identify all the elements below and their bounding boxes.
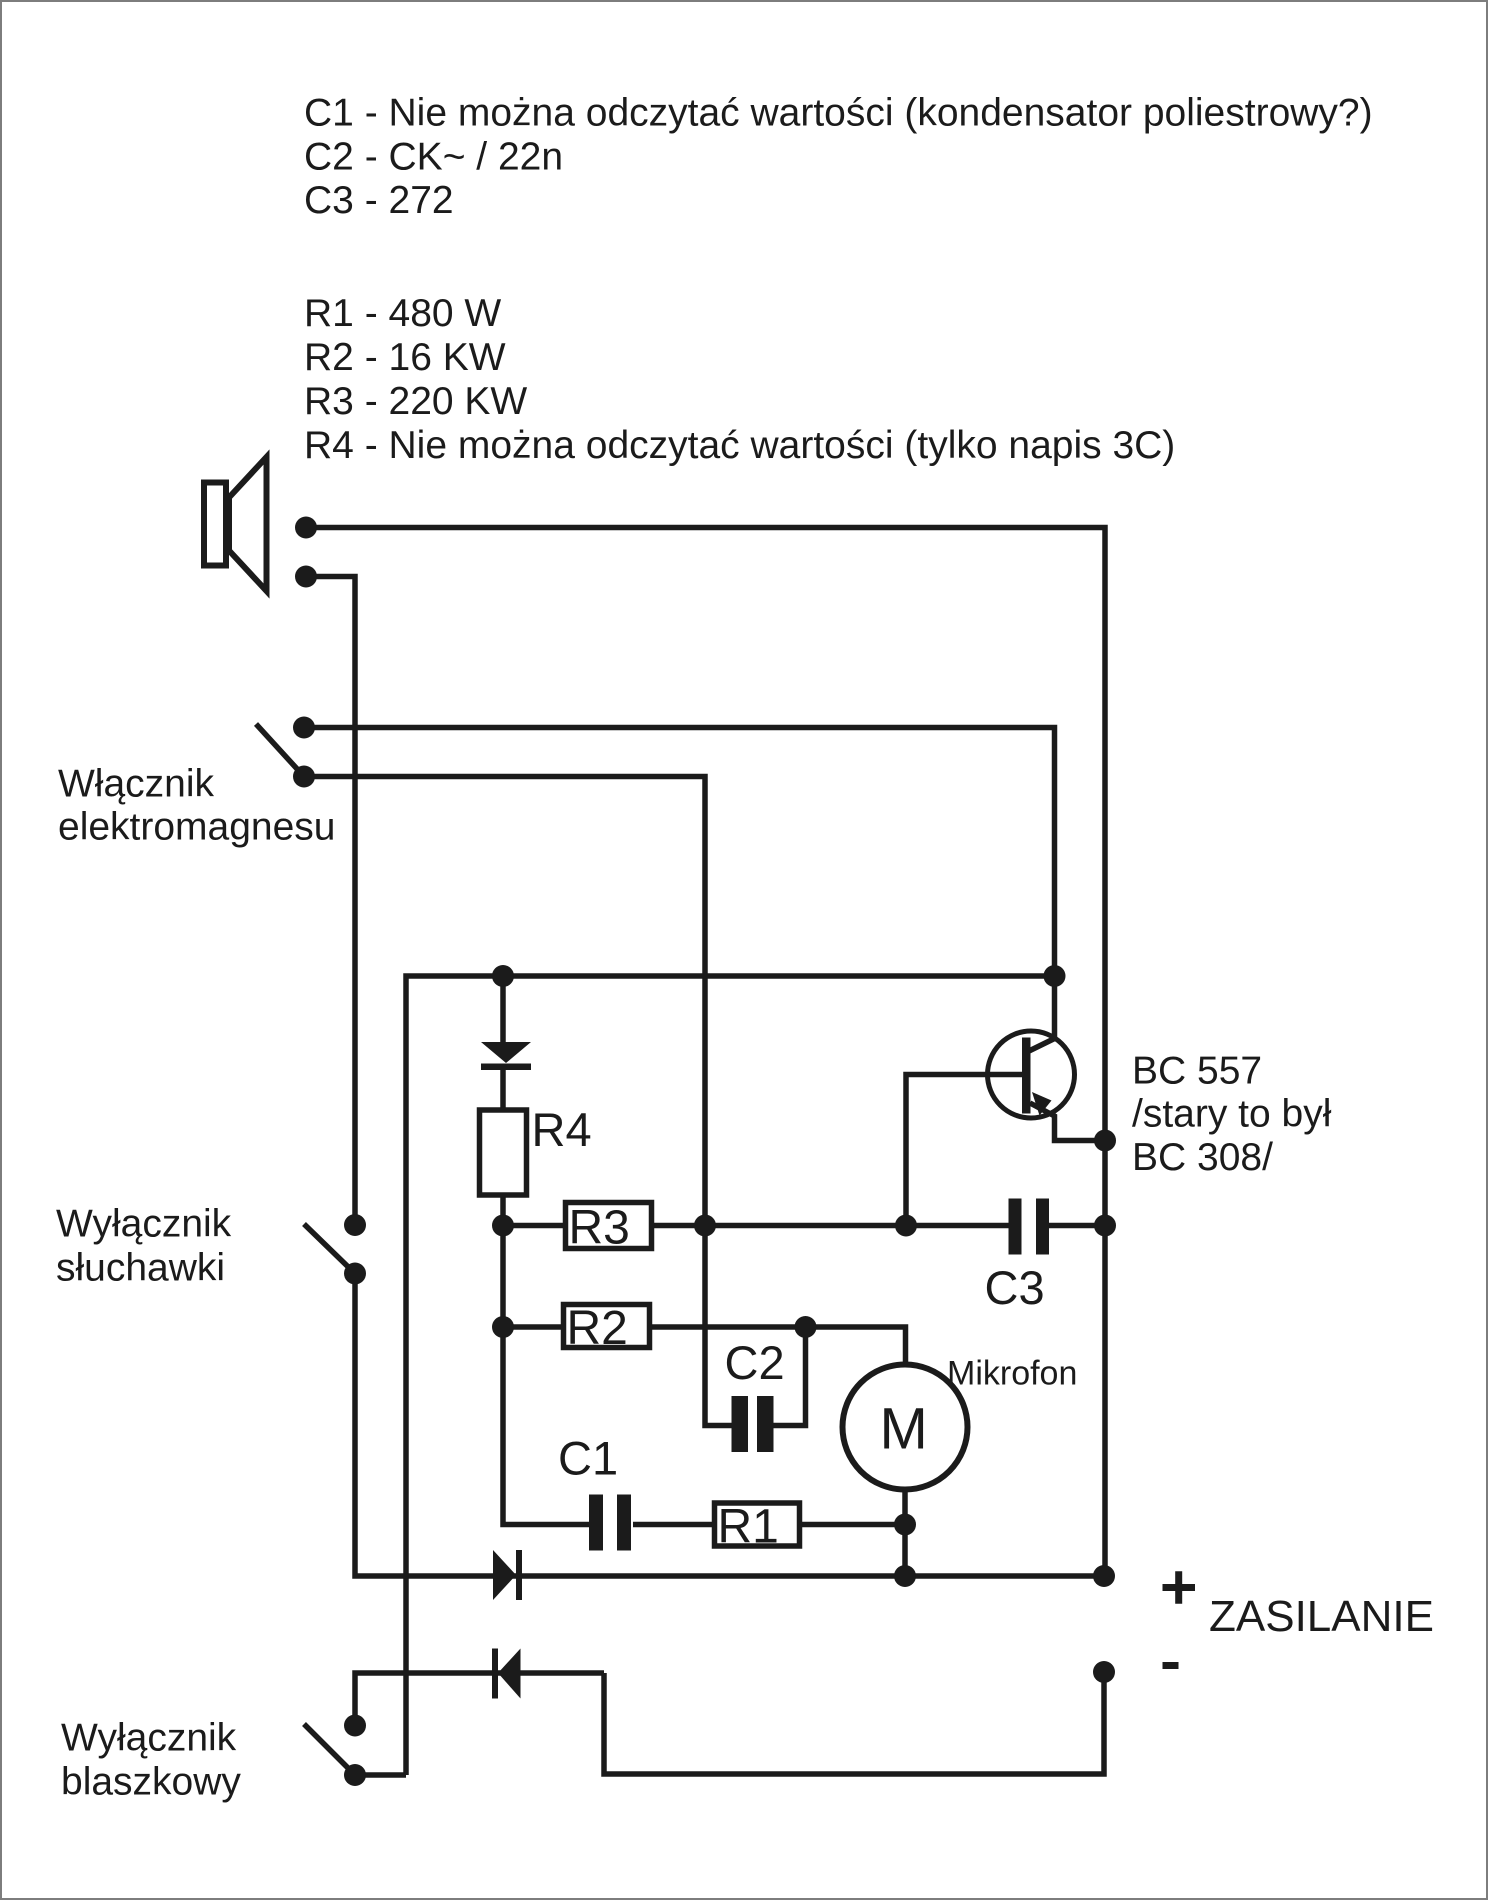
svg-text:ZASILANIE: ZASILANIE <box>1209 1592 1434 1641</box>
svg-text:R1 - 480 W: R1 - 480 W <box>304 292 501 335</box>
svg-text:R1: R1 <box>718 1501 779 1554</box>
svg-text:R3: R3 <box>569 1202 630 1255</box>
svg-text:R4: R4 <box>532 1103 592 1156</box>
svg-text:C1 - Nie można odczytać wartoś: C1 - Nie można odczytać wartości (konden… <box>304 92 1373 135</box>
svg-text:R4 - Nie można odczytać wartoś: R4 - Nie można odczytać wartości (tylko … <box>304 424 1175 467</box>
svg-text:M: M <box>880 1397 928 1462</box>
svg-text:R3 - 220 KW: R3 - 220 KW <box>304 380 527 423</box>
svg-text:blaszkowy: blaszkowy <box>61 1760 241 1803</box>
svg-text:słuchawki: słuchawki <box>56 1247 225 1290</box>
svg-text:BC 557: BC 557 <box>1132 1049 1262 1092</box>
svg-text:C3 - 272: C3 - 272 <box>304 179 454 222</box>
svg-text:BC 308/: BC 308/ <box>1132 1136 1273 1179</box>
svg-text:C3: C3 <box>985 1261 1045 1314</box>
svg-text:C2: C2 <box>725 1336 785 1389</box>
svg-text:/stary to był: /stary to był <box>1132 1093 1332 1136</box>
svg-text:C2 - CK~ / 22n: C2 - CK~ / 22n <box>304 136 563 179</box>
svg-text:R2: R2 <box>567 1302 628 1355</box>
svg-text:C1: C1 <box>558 1432 618 1485</box>
svg-text:Wyłącznik: Wyłącznik <box>56 1203 232 1246</box>
svg-text:Mikrofon: Mikrofon <box>947 1355 1077 1393</box>
svg-text:elektromagnesu: elektromagnesu <box>58 805 336 848</box>
svg-text:R2 - 16 KW: R2 - 16 KW <box>304 336 506 379</box>
svg-text:Wyłącznik: Wyłącznik <box>61 1717 237 1760</box>
svg-text:Włącznik: Włącznik <box>58 762 215 805</box>
